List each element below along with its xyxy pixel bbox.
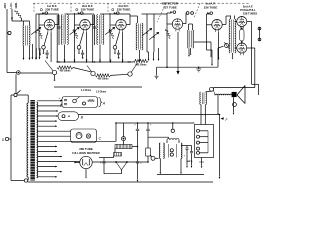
bias resistor between push-pull tubes [240,27,244,42]
svg-text:GND.: GND. [14,2,18,9]
rectifier tube 280 [74,156,148,178]
ground bus bottom [28,181,213,183]
ground drops left of 1st R.F. [32,44,41,60]
svg-text:FULL WAVE RECTIFIER: FULL WAVE RECTIFIER [72,152,100,155]
svg-text:400 Ohms: 400 Ohms [98,78,110,81]
screen lead 2nd R.F. [86,32,88,62]
push-pull triode lower 238 [237,43,247,55]
volume control pot 2 [87,66,95,76]
grid cap clip 3rd R.F. [114,12,119,15]
bias resistor 800 ohms 3 [133,59,148,66]
phone jack circles [186,12,194,24]
power transformer primary winding [27,95,28,181]
power switch [14,90,28,96]
triode 3rd R.F. [116,20,126,33]
box C dial lamps [71,129,97,143]
power transformer secondary winding [37,102,38,178]
electrolytic capacitors 8 MFD [181,146,193,169]
gang tuning capacitor [100,13,115,62]
AC terminal circle bottom [24,179,27,182]
tuning capacitor stage 1 [31,14,43,48]
screen lead 1st R.F. [50,32,52,62]
speaker lower terminal circle [233,103,237,107]
label B [81,115,84,119]
push-pull grid connections [235,22,237,49]
bias resistor 400 ohms 2 [95,74,128,81]
svg-text:236 TUBE: 236 TUBE [204,5,218,9]
svg-text:ANT.: ANT. [3,2,7,8]
gang tuning capacitor [65,13,80,62]
svg-text:PUSH-PULL: PUSH-PULL [240,8,256,12]
local antenna wire with arrow [11,9,13,21]
antenna coupling coil L1 [12,21,30,46]
svg-text:236 TUBE: 236 TUBE [45,8,59,12]
svg-text:1.5 Ohms: 1.5 Ohms [96,91,107,93]
terminal D circle [2,137,11,142]
long B+ lead from box B [79,114,221,179]
label 1st A.F. [204,2,218,10]
B+ detector line with grounds [154,46,223,79]
svg-text:8MFD: 8MFD [187,161,193,163]
bias resistor block [99,153,122,158]
svg-text:1.1 Ohms: 1.1 Ohms [81,90,92,92]
svg-text:227 TUBE: 227 TUBE [163,5,177,9]
speaker magnet block [232,92,237,97]
svg-text:400 Ohms: 400 Ohms [60,70,72,73]
grid cap clip 1st A.F. [207,12,212,15]
label 3rd R.F. [112,4,131,12]
coupling transformer after 3rd R.F. [130,16,143,62]
triode detector 227 [172,19,182,32]
cathode bus [57,60,134,63]
box A line unit [58,91,106,107]
C-bias terminals right edge [258,27,261,41]
divider ground lead [199,158,204,169]
screen bypass pair [93,15,96,62]
center-tap triangle resistor [104,161,128,174]
screen lead 3rd R.F. [122,32,124,62]
detector output wiring [188,42,212,58]
B+ line to divider box [115,122,194,141]
filament center-tap wire [54,87,142,92]
cathode resistor circle 2nd R.F. [77,32,83,54]
svg-text:800 Ohms: 800 Ohms [136,64,148,66]
interstage RF transformer [61,15,68,63]
grid cap clip detector [170,11,175,14]
AC line wire left [11,95,24,181]
detector trimmer capacitor [147,14,160,61]
bias resistor 400 ohms 1 [57,66,91,73]
speaker input terminal circle [210,87,214,91]
svg-text:C: C [98,136,101,140]
electrolytic capacitor left of triangle [100,158,106,174]
detector cathode ground drops [166,32,179,75]
interstage transformer to push-pull [226,16,236,60]
svg-text:236 TUBE: 236 TUBE [81,8,95,12]
svg-text:280 TUBE: 280 TUBE [79,147,93,151]
label C [98,136,101,140]
grid cap clip 2nd R.F. [78,12,83,15]
antenna terminal labels [3,2,18,9]
1st A.F. cathode drops [211,32,219,66]
stage wiring 1st R.F. [37,14,58,50]
interstage RF transformer [97,15,104,63]
cathode resistor circle 1st R.F. [42,32,48,54]
volume control pot 3 [128,63,138,76]
ballast lamp circle [122,123,126,145]
stage wiring 3rd R.F. [109,14,130,39]
lightning arrester [15,10,22,21]
box B ballast [58,112,79,121]
svg-text:2nd A.F.: 2nd A.F. [243,4,253,8]
audio transformer after detector [188,24,194,55]
detector tuning capacitor [142,14,153,61]
svg-text:238 TUBES: 238 TUBES [243,11,258,15]
label 1st R.F. [40,4,59,12]
svg-text:LOC.: LOC. [9,2,13,8]
dashed gang/shield line [33,3,249,22]
secondary taps [37,100,116,178]
antenna lead-in wire [7,9,17,73]
label F arrow top right [221,117,229,122]
triode 1st A.F. 236 [212,20,222,33]
cathode resistor circle 3rd R.F. [113,32,119,54]
connector circle filter [150,155,158,160]
grid bias potentiometer right [224,42,229,48]
svg-text:A: A [102,101,106,105]
screen bypass pair [57,15,60,62]
terminal circle ant coil [7,31,11,34]
output transformer speaker [200,91,212,125]
voice coil winding [213,90,232,95]
label 2nd A.F. push-pull [240,4,257,15]
cathode bypass capacitor 1st R.F. [46,50,49,59]
ground arrows input stage [23,46,41,60]
label detector [162,2,179,10]
wirewound resistor bar [115,145,138,153]
stage wiring 2nd R.F. [73,14,94,39]
triode 2nd R.F. [80,20,90,33]
cathode bypass capacitor 3rd R.F. [117,50,120,59]
svg-text:236 TUBE: 236 TUBE [117,8,131,12]
push-pull triode upper 238 [237,17,247,29]
stage wiring 1st A.F. [207,14,227,50]
label rectifier [72,147,100,155]
jack terminal circle left [16,71,20,94]
volume control pot 1 [20,61,57,81]
speaker cone [237,86,245,104]
filter choke divider transformer [157,129,204,174]
cathode bypass capacitor 2nd R.F. [81,50,84,59]
grid cap clip 1st R.F. [42,12,47,15]
filter capacitor left [134,122,142,182]
filter capacitor right with resistor box [146,122,169,163]
voltage divider box [195,125,214,158]
push-pull plate leads [214,22,259,96]
label 2nd R.F. [76,4,95,12]
triode 1st R.F. [44,20,54,33]
label A [102,101,106,105]
speaker field leads with arrows [217,95,234,115]
power transformer core [30,100,35,181]
stage wiring detector [160,13,186,50]
